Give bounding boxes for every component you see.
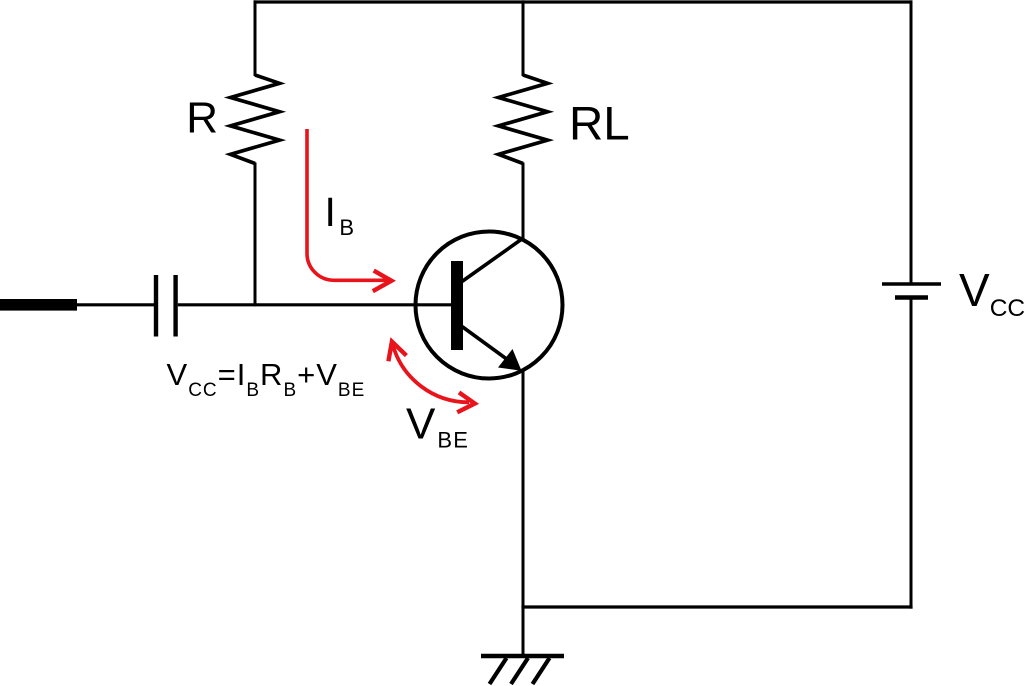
ground hatch 1 bbox=[490, 658, 507, 684]
IB red current arrow curve bbox=[307, 129, 387, 280]
IB red arrowhead chevron bbox=[373, 271, 392, 292]
ground bar bbox=[481, 654, 564, 658]
input terminal thick bar bbox=[0, 299, 77, 311]
wire top rail from R branch to Vcc branch bbox=[254, 0, 913, 3]
resistor R bbox=[231, 75, 280, 164]
wire input terminal to capacitor bbox=[74, 303, 154, 306]
ground hatch 3 bbox=[533, 658, 550, 684]
VBE red arrowhead lower chevron bbox=[457, 392, 475, 412]
wire base (capacitor to transistor base) bbox=[178, 303, 452, 306]
transistor Q1 body circle bbox=[416, 232, 563, 379]
VBE red arrowhead upper chevron bbox=[388, 342, 406, 362]
battery VCC positive plate bbox=[882, 282, 941, 286]
resistor RL bbox=[499, 75, 548, 164]
wire left branch upper (top rail down to resistor R) bbox=[254, 0, 257, 76]
wire bottom rail (emitter node to Vcc branch) bbox=[521, 605, 912, 608]
capacitor right plate bbox=[173, 275, 177, 337]
capacitor left plate bbox=[154, 275, 158, 337]
transistor Q1 base bar bbox=[451, 261, 463, 350]
wire left branch lower (resistor R down to base node) bbox=[254, 163, 257, 307]
VBE red arc double arrow bbox=[393, 345, 469, 402]
wire emitter (transistor down to ground) bbox=[522, 371, 525, 656]
wire RL branch upper (top rail down to resistor RL) bbox=[522, 0, 525, 76]
transistor Q1 collector lead bbox=[462, 238, 524, 282]
battery VCC negative plate bbox=[895, 295, 928, 300]
svg-text:RL: RL bbox=[569, 98, 630, 151]
ground hatch 2 bbox=[511, 658, 528, 684]
wire right branch upper (top rail down to battery) bbox=[910, 0, 913, 284]
svg-text:R: R bbox=[186, 94, 218, 143]
wire right branch lower (battery down to bottom rail) bbox=[910, 298, 913, 609]
transistor Q1 emitter arrowhead bbox=[498, 349, 522, 371]
transistor Q1 emitter lead bbox=[462, 327, 508, 361]
wire collector (resistor RL down to transistor collector) bbox=[522, 163, 525, 240]
